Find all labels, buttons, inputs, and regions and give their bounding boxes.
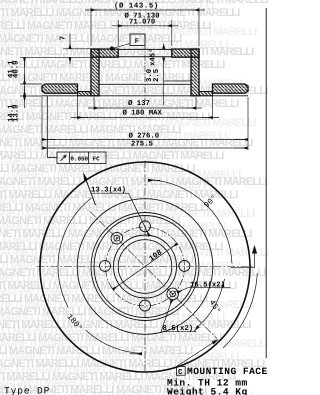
leader mounting face C [177,340,219,367]
dim 7 left [63,48,91,50]
90 deg arc east r87: 0..90 [148,180,232,264]
45 deg arc se r80 [199,287,223,326]
leader arrow to braking surface [85,176,96,205]
svg-text:71.070: 71.070 [129,19,155,27]
dim O 276.0 [41,97,43,150]
svg-text:40.9: 40.9 [12,60,20,78]
svg-text:13.9: 13.9 [12,104,20,122]
right hat wall section [191,49,199,96]
dim O 71.130/71.070 [117,20,119,46]
svg-text:7: 7 [60,36,68,40]
svg-text:8.5(x2): 8.5(x2) [163,324,194,333]
leader 13.3 [91,192,129,194]
dim 41.1/40.9 + 14.1/13.9 shared line [24,58,26,96]
svg-text:MAGNETI MARELLI MAGNETI MAR: MAGNETI MARELLI MAGNETI MARELLI MAGNETI … [0,65,170,77]
section centerline [144,44,146,101]
svg-text:MAGNETI MARELLI MAGNETI MAR: MAGNETI MARELLI MAGNETI MARELLI MAGNETI … [0,143,198,155]
FC feature control frame [47,96,106,205]
svg-text:Weight 5.4 Kg: Weight 5.4 Kg [167,387,248,395]
diagonal centerline 135-315 deg [90,211,217,338]
countersunk screw hole 8.5/16.5 upper-left [111,232,123,244]
right braking band section [213,84,249,93]
bolt hole 13.3 north [140,221,151,232]
bolt hole 13.3 west [100,260,111,271]
svg-text:MAGNETI MARELLI MAGNETI MAR: MAGNETI MARELLI MAGNETI MARELLI MAGNETI … [0,273,211,285]
svg-text:(Ø 143.5): (Ø 143.5) [114,2,159,11]
leader 8.5 [161,331,197,333]
svg-text:MAGNETI MARELLI MAGNETI MAR: MAGNETI MARELLI MAGNETI MARELLI MAGNETI … [0,338,268,350]
left braking band section [42,84,78,93]
horizontal centerline [37,266,254,268]
bolt hole 13.3 south [140,300,151,311]
hub top far edge lines across bore [118,48,172,50]
svg-text:Ø 137: Ø 137 [128,100,150,108]
L extension with up arrow at east end [231,253,255,268]
right border line [265,8,267,358]
leader 16.5 [188,287,230,289]
svg-text:F: F [135,38,139,46]
disc bottom far edge line [42,95,248,97]
svg-text:Ø 276.0: Ø 276.0 [129,133,160,141]
dim (O 143.5) [90,8,92,47]
right wall foot [199,92,213,96]
svg-text:2.5: 2.5 [153,69,161,82]
outer circle dia 276 [40,162,250,372]
svg-text:16.5(x2): 16.5(x2) [190,281,225,290]
center bore circle dia 71.13 [118,240,172,294]
svg-text:MAGNETI MARELLI MAGNETI MAR: MAGNETI MARELLI MAGNETI MARELLI MAGNETI … [0,169,241,181]
svg-text:13.3(x4): 13.3(x4) [91,186,126,195]
svg-text:275.5: 275.5 [131,141,153,149]
svg-text:MAGNETI MARELLI MAGNETI MAR: MAGNETI MARELLI MAGNETI MARELLI MAGNETI … [0,26,257,38]
svg-text:Ø 180 MAX: Ø 180 MAX [123,110,163,118]
svg-text:MAGNETI MARELLI MAGNETI MAR: MAGNETI MARELLI MAGNETI MARELLI MAGNETI … [0,91,213,103]
hub plate left of bore [91,49,118,57]
45 deg outer dimension arc r112.5 [223,273,257,348]
svg-text:MAGNETI MARELLI MAGNETI MAR: MAGNETI MARELLI MAGNETI MARELLI MAGNETI … [0,130,227,142]
svg-text:Type DP: Type DP [4,385,50,395]
svg-text:MOUNTING FACE: MOUNTING FACE [187,366,268,377]
vertical centerline [144,161,146,374]
svg-text:x45°: x45° [149,48,158,66]
hub plate right of bore [172,49,199,57]
recess circle dia 137 [94,216,196,318]
svg-text:MAGNETI MARELLI MAGNETI MAR: MAGNETI MARELLI MAGNETI MARELLI MAGNETI … [0,312,225,324]
braking surface inner circle dia 180 [77,199,213,335]
dim O 137 [93,97,95,110]
left hat wall section [91,49,99,96]
svg-text:MAGNETI MARELLI MAGNETI MAR: MAGNETI MARELLI MAGNETI MARELLI MAGNETI … [0,117,256,129]
svg-text:MAGNETI MARELLI MAGNETI MAR: MAGNETI MARELLI MAGNETI MARELLI MAGNETI … [0,351,239,363]
svg-text:FC: FC [93,155,101,162]
dim 275.5 [43,147,248,149]
108 diameter line [113,244,177,290]
svg-text:MAGNETI MARELLI MAGNETI MAR: MAGNETI MARELLI MAGNETI MARELLI MAGNETI … [0,195,183,207]
countersunk screw hole 8.5/16.5 lower-right [167,288,179,300]
left wall foot [78,92,92,96]
extension lines left [20,56,91,58]
band top far edge across hat [99,83,191,85]
svg-text:0.050: 0.050 [70,155,88,162]
F datum leader [110,46,114,50]
bolt circle dia 108 dash-dot [106,227,185,306]
bolt hole 13.3 east [179,260,190,271]
hat outer circle dia 143.5 [91,213,199,321]
hub recess circle [114,235,177,298]
svg-text:MAGNETI MARELLI MAGNETI MAR: MAGNETI MARELLI MAGNETI MARELLI MAGNETI … [0,260,240,272]
dim O 180 MAX [77,95,79,120]
chamfer dim 3.0/2.5 x45 [163,58,165,105]
datum C box [176,366,185,375]
180 deg arc west r87: 128..208, 227..268 [58,198,91,307]
